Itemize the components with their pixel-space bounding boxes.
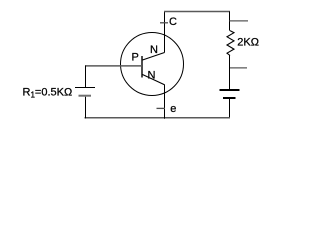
svg-text:C: C xyxy=(169,16,177,28)
transistor Q1 base bar xyxy=(141,56,143,78)
transistor Q1 circle xyxy=(121,33,184,96)
node C tick xyxy=(160,22,168,24)
transistor Q1 collector diagonal xyxy=(143,53,165,61)
wire left branch upper xyxy=(85,66,87,88)
wire right branch lower xyxy=(229,99,231,119)
transistor Q1 emitter diagonal xyxy=(143,75,165,85)
wire base lead xyxy=(85,65,142,67)
battery B1 top plate xyxy=(75,87,95,89)
wire bottom horizontal xyxy=(85,117,231,119)
svg-text:2KΩ: 2KΩ xyxy=(237,37,259,49)
resistor R2 zigzag xyxy=(227,31,234,56)
svg-text:P: P xyxy=(132,52,139,64)
svg-text:N: N xyxy=(150,44,158,56)
wire left branch lower xyxy=(85,97,87,119)
battery B1 bottom plate xyxy=(79,95,92,97)
node e tick xyxy=(157,107,166,109)
tick bottom of resistor xyxy=(230,67,248,69)
tick top of resistor xyxy=(230,20,249,22)
wire right branch upper xyxy=(229,12,231,31)
wire collector vertical xyxy=(164,12,166,53)
svg-text:N: N xyxy=(148,70,156,82)
svg-text:R1=0.5KΩ: R1=0.5KΩ xyxy=(23,86,73,99)
battery B2 bottom plate xyxy=(223,97,236,99)
wire emitter vertical xyxy=(164,85,166,119)
svg-text:e: e xyxy=(170,103,176,115)
wire right branch middle xyxy=(229,56,231,90)
wire top horizontal xyxy=(164,11,230,13)
battery B2 top plate xyxy=(220,89,240,91)
